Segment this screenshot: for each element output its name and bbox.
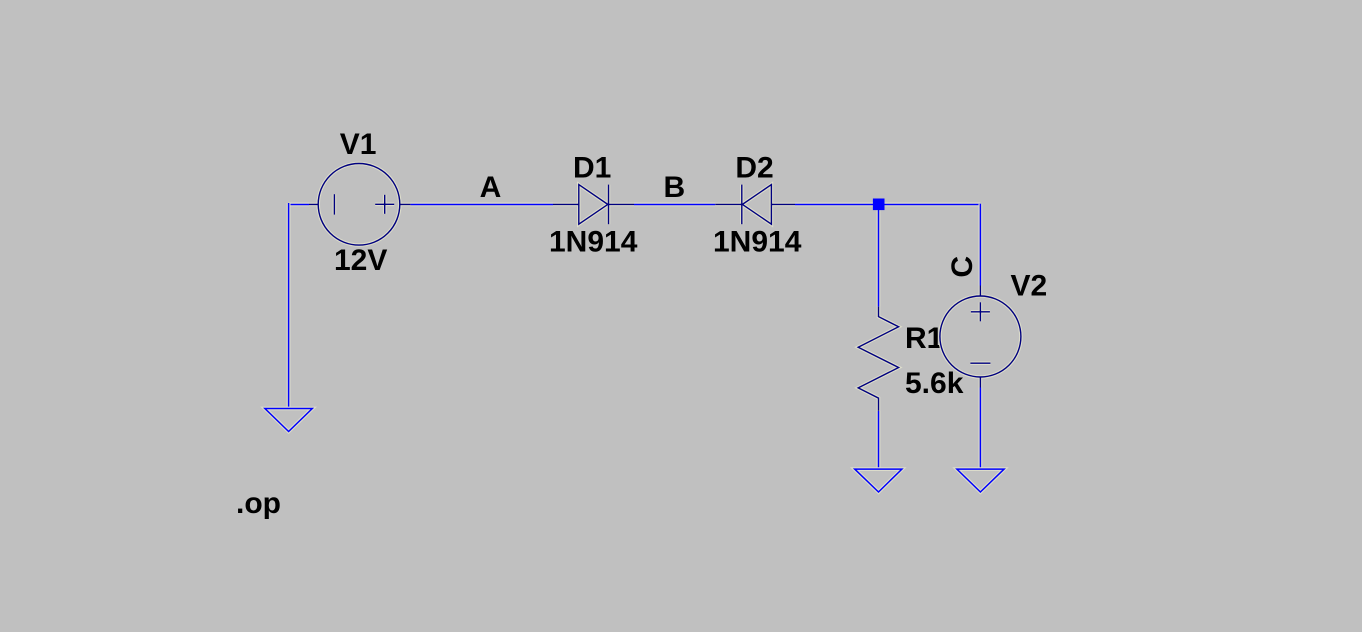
wire W6: corner down to V2 top pin: [979, 204, 983, 286]
svg-text:1N914: 1N914: [713, 225, 802, 258]
svg-text:D2: D2: [735, 151, 773, 184]
svg-text:D1: D1: [573, 151, 611, 184]
svg-text:R1: R1: [905, 322, 943, 355]
voltage source V2: [940, 286, 1021, 388]
svg-text:12V: 12V: [334, 244, 387, 277]
wire W8: R1 bottom pin to ground G2: [877, 411, 881, 469]
svg-text:B: B: [664, 171, 686, 204]
ground flag (below V2): [957, 469, 1004, 492]
resistor R1: [858, 307, 898, 411]
wire W7: junction down to R1 top pin: [877, 204, 881, 306]
wire W9: V2 bottom pin to ground G3: [979, 388, 983, 470]
wire W1: V1 left pin to corner: [289, 203, 309, 207]
svg-text:C: C: [946, 256, 979, 278]
wire W2: corner down to ground G1: [287, 203, 291, 409]
voltage source V1: [309, 164, 410, 246]
svg-text:5.6k: 5.6k: [905, 367, 964, 400]
svg-text:.op: .op: [236, 487, 281, 520]
wire W5: D2 anode to V2 top corner: [795, 203, 980, 207]
svg-text:A: A: [480, 171, 502, 204]
svg-text:V2: V2: [1011, 270, 1048, 303]
ground flag (below R1): [855, 469, 902, 492]
junction node on net B-R1-V2: [873, 199, 885, 211]
svg-text:V1: V1: [340, 128, 377, 161]
diode D2: [715, 185, 795, 225]
wire W3: V1 right pin to D1 anode: [410, 203, 553, 207]
svg-text:1N914: 1N914: [549, 225, 638, 258]
wire W4: D1 cathode to D2 cathode: [634, 203, 715, 207]
diode D1: [553, 185, 634, 225]
ground flag (below V1): [265, 409, 312, 432]
